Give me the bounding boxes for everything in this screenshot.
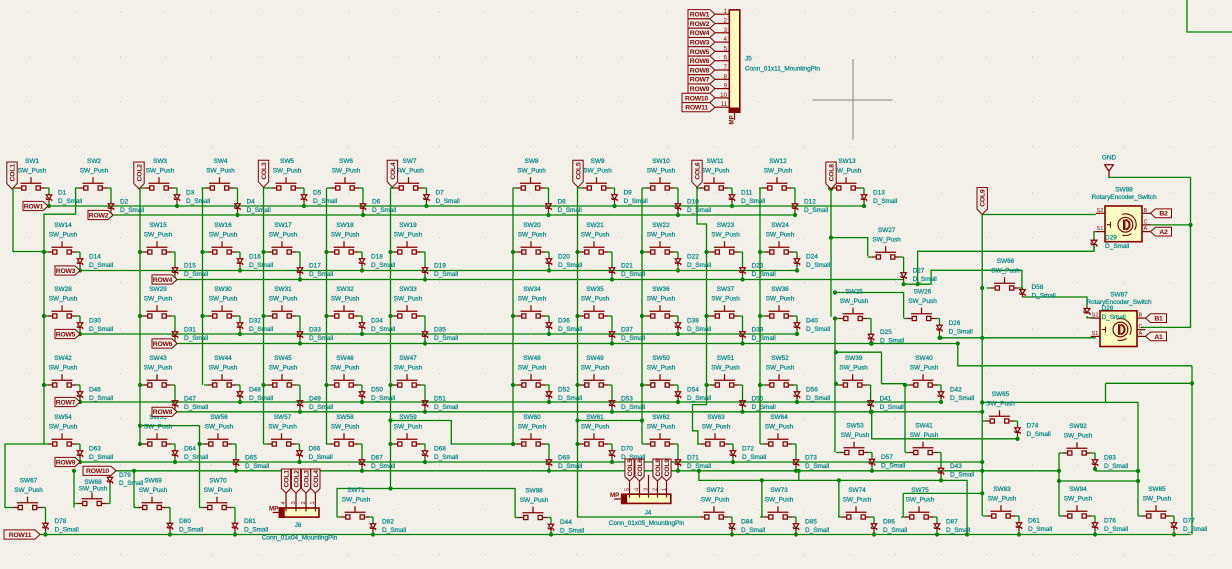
svg-text:D_Small: D_Small	[371, 262, 396, 269]
svg-text:D_Small: D_Small	[1102, 314, 1127, 321]
wire	[545, 384, 549, 386]
switch SW69	[138, 497, 166, 510]
wire	[1091, 515, 1095, 517]
svg-text:7: 7	[724, 64, 728, 71]
junction	[1057, 469, 1061, 473]
svg-text:A1: A1	[1154, 334, 1163, 341]
wire	[48, 188, 50, 193]
wire SW10 column	[641, 188, 643, 444]
wire	[235, 467, 237, 470]
wire	[174, 339, 176, 343]
svg-text:SW_Push: SW_Push	[906, 497, 935, 504]
junction	[360, 469, 364, 473]
wire	[79, 330, 81, 334]
diode D64	[172, 449, 177, 458]
svg-text:SW_Push: SW_Push	[394, 296, 423, 303]
switch SW38	[765, 305, 793, 318]
wire	[796, 266, 798, 270]
svg-text:D16: D16	[249, 253, 261, 260]
svg-text:SW69: SW69	[144, 477, 162, 484]
junction	[298, 277, 302, 281]
svg-text:D_Small: D_Small	[742, 454, 767, 461]
wire	[873, 517, 875, 522]
global label ROW4	[152, 275, 177, 284]
svg-text:D_Small: D_Small	[873, 198, 898, 205]
wire	[389, 384, 393, 386]
wire encoder C SW87	[1141, 326, 1191, 328]
wire	[903, 257, 905, 271]
svg-text:SW56: SW56	[210, 414, 228, 421]
wire lower mid bus	[699, 471, 967, 535]
switch SW35	[580, 305, 608, 318]
diode D50	[359, 390, 364, 399]
net COL9 wire	[981, 215, 983, 421]
wire	[389, 315, 393, 317]
junction	[388, 442, 392, 446]
junction	[676, 332, 680, 336]
net ROW2 wire	[113, 214, 795, 216]
svg-text:SW29: SW29	[149, 286, 167, 293]
svg-text:SW11: SW11	[706, 158, 723, 165]
svg-text:D_Small: D_Small	[434, 335, 459, 342]
wire	[326, 443, 330, 445]
wire	[548, 385, 550, 390]
wire	[739, 315, 743, 317]
junction	[138, 442, 142, 446]
junction	[1190, 381, 1194, 385]
diode D63	[77, 449, 82, 458]
diode D22	[675, 257, 680, 266]
svg-text:SW59: SW59	[399, 414, 417, 421]
wire	[75, 187, 79, 189]
junction	[833, 290, 837, 294]
svg-text:MP: MP	[729, 115, 736, 124]
svg-text:ROW2: ROW2	[690, 21, 710, 28]
wire	[1094, 467, 1096, 469]
svg-text:SW_Push: SW_Push	[518, 424, 547, 431]
svg-text:D_Small: D_Small	[560, 527, 585, 534]
junction	[795, 400, 799, 404]
diode D5	[301, 193, 306, 202]
svg-text:ROW6: ROW6	[690, 58, 710, 65]
svg-text:B: B	[1144, 208, 1148, 214]
wire	[362, 188, 364, 202]
wire	[171, 315, 175, 317]
svg-text:SW3: SW3	[153, 158, 167, 165]
svg-text:D_Small: D_Small	[371, 463, 396, 470]
net ROW3 wire	[80, 270, 797, 272]
junction	[132, 469, 136, 473]
svg-text:D_Small: D_Small	[741, 527, 766, 534]
diode D47	[172, 399, 177, 408]
switch SW3	[145, 177, 173, 190]
diode D61	[1016, 521, 1021, 530]
svg-text:Conn_01x11_MountingPin: Conn_01x11_MountingPin	[745, 66, 820, 73]
switch SW51	[711, 374, 739, 387]
net ROW1 wire	[48, 205, 864, 207]
svg-text:D_Small: D_Small	[1104, 463, 1129, 470]
svg-text:SW35: SW35	[586, 286, 604, 293]
svg-text:SW_Push: SW_Push	[765, 424, 794, 431]
power symbol GND	[1105, 165, 1114, 178]
wire	[236, 384, 240, 386]
wire	[1091, 452, 1095, 454]
junction	[511, 314, 515, 318]
svg-text:5: 5	[624, 488, 630, 491]
wire	[728, 516, 732, 518]
svg-text:SW37: SW37	[717, 286, 735, 293]
wire S1 SW88 run	[918, 246, 1094, 284]
junction	[109, 213, 113, 217]
junction	[794, 469, 798, 473]
wire	[760, 443, 764, 445]
svg-text:D15: D15	[184, 262, 196, 269]
switch SW27	[872, 246, 900, 259]
svg-text:S1: S1	[1097, 226, 1104, 232]
diode D15	[172, 266, 177, 275]
wire	[1094, 453, 1096, 458]
wire	[548, 252, 550, 257]
switch SW19	[393, 241, 421, 254]
svg-text:SW12: SW12	[769, 158, 787, 165]
junction	[872, 532, 876, 536]
svg-text:SW_Push: SW_Push	[701, 168, 730, 175]
junction	[575, 314, 579, 318]
junction	[200, 314, 204, 318]
diode D30	[77, 321, 82, 330]
svg-text:SW18: SW18	[336, 222, 354, 229]
svg-text:SW50: SW50	[652, 355, 670, 362]
svg-text:SW6: SW6	[339, 158, 353, 165]
junction	[42, 383, 46, 387]
svg-text:D_Small: D_Small	[179, 526, 204, 533]
wire	[677, 467, 679, 470]
svg-text:SW_Push: SW_Push	[268, 424, 297, 431]
svg-text:D_Small: D_Small	[946, 527, 971, 534]
wire	[173, 187, 177, 189]
global label COL1	[281, 469, 290, 493]
junction	[423, 277, 427, 281]
wire	[937, 452, 941, 454]
switch SW46	[330, 374, 358, 387]
svg-text:COL9: COL9	[664, 459, 671, 477]
svg-text:D32: D32	[249, 317, 261, 324]
svg-text:D_Small: D_Small	[434, 271, 459, 278]
switch SW2	[79, 177, 107, 190]
wire	[141, 187, 145, 189]
svg-text:SW88: SW88	[1115, 187, 1133, 194]
diode D26	[937, 324, 942, 333]
switch SW36	[646, 305, 674, 318]
wire	[79, 266, 81, 270]
svg-text:D53: D53	[621, 395, 633, 402]
diode D93	[1092, 458, 1097, 467]
wire	[361, 444, 363, 458]
svg-text:SW_Push: SW_Push	[711, 365, 740, 372]
svg-text:SW_Push: SW_Push	[144, 365, 173, 372]
svg-text:ROW10: ROW10	[685, 95, 708, 102]
switch SW23	[711, 241, 739, 254]
wire	[548, 467, 550, 470]
junction	[610, 277, 614, 281]
svg-text:S1: S1	[1092, 331, 1099, 337]
svg-text:D_Small: D_Small	[313, 198, 338, 205]
svg-text:D_Small: D_Small	[249, 262, 274, 269]
diode D87	[934, 522, 939, 531]
junction	[980, 410, 984, 414]
wire	[358, 251, 362, 253]
junction	[870, 469, 874, 473]
wire	[870, 319, 872, 333]
svg-text:SW61: SW61	[586, 414, 604, 421]
svg-text:D69: D69	[558, 454, 570, 461]
junction	[794, 532, 798, 536]
global label COL9	[977, 188, 987, 215]
svg-text:D38: D38	[687, 317, 699, 324]
svg-text:1: 1	[724, 8, 728, 15]
switch SW49	[580, 374, 608, 387]
junction	[47, 204, 51, 208]
svg-text:COL2: COL2	[293, 470, 300, 488]
svg-text:SW98: SW98	[525, 487, 543, 494]
wire	[614, 202, 616, 206]
wire to SW26	[835, 293, 904, 318]
wire	[327, 187, 331, 189]
net COL2 jog	[140, 426, 200, 508]
switch SW20	[517, 241, 545, 254]
svg-text:D4: D4	[247, 198, 256, 205]
svg-text:D_Small: D_Small	[687, 207, 712, 214]
wire	[732, 458, 734, 462]
svg-text:SW_Push: SW_Push	[79, 485, 108, 492]
svg-text:COL6: COL6	[637, 459, 644, 477]
svg-text:SW53: SW53	[846, 422, 864, 429]
svg-text:COL2: COL2	[136, 164, 143, 182]
svg-text:SW_Push: SW_Push	[702, 424, 731, 431]
svg-text:SW83: SW83	[993, 486, 1011, 493]
wire	[264, 384, 268, 386]
wire	[200, 443, 204, 445]
svg-text:SW_Push: SW_Push	[764, 168, 793, 175]
diode D32	[237, 321, 242, 330]
svg-text:D5: D5	[313, 189, 322, 196]
junction	[676, 268, 680, 272]
svg-text:SW38: SW38	[771, 286, 789, 293]
wire	[79, 385, 81, 390]
junction	[261, 383, 265, 387]
switch SW11	[700, 177, 728, 190]
wire	[707, 384, 711, 386]
wire	[982, 420, 986, 422]
svg-text:D_Small: D_Small	[249, 395, 274, 402]
wire	[139, 251, 143, 253]
switch SW14	[48, 241, 76, 254]
wire	[1094, 530, 1096, 534]
diode D80	[167, 522, 172, 531]
svg-text:SW8: SW8	[525, 158, 539, 165]
junction	[78, 268, 82, 272]
svg-text:SW75: SW75	[911, 487, 929, 494]
svg-text:Conn_01x04_MountingPin: Conn_01x04_MountingPin	[262, 535, 338, 542]
svg-text:D_Small: D_Small	[880, 404, 905, 411]
svg-text:D_Small: D_Small	[120, 207, 145, 214]
svg-text:SW13: SW13	[838, 158, 856, 165]
wire	[174, 444, 176, 449]
diode D17	[297, 266, 302, 275]
junction	[834, 350, 838, 354]
svg-text:D25: D25	[880, 329, 892, 336]
svg-text:SW_Push: SW_Push	[204, 487, 233, 494]
svg-text:COL4: COL4	[390, 162, 397, 180]
wire	[299, 339, 301, 343]
wire	[642, 443, 646, 445]
svg-text:D68: D68	[434, 445, 446, 452]
junction	[43, 532, 47, 536]
junction	[980, 336, 984, 340]
svg-text:SW70: SW70	[209, 477, 227, 484]
svg-text:SW48: SW48	[523, 355, 541, 362]
wire	[742, 275, 744, 279]
switch SW85	[1142, 505, 1170, 518]
wire	[1059, 452, 1063, 454]
diode D68	[422, 449, 427, 458]
svg-text:SW_Push: SW_Push	[49, 232, 78, 239]
svg-text:A: A	[1144, 226, 1148, 232]
wire SW8 column	[512, 188, 514, 444]
svg-text:D24: D24	[806, 253, 818, 260]
diode D43	[938, 467, 943, 476]
svg-text:ROW6: ROW6	[153, 341, 173, 348]
svg-text:SW14: SW14	[54, 222, 72, 229]
junction	[361, 213, 365, 217]
svg-text:ROW10: ROW10	[86, 468, 109, 475]
svg-text:C: C	[1139, 324, 1143, 330]
diode D76	[1092, 521, 1097, 530]
wire	[42, 507, 46, 509]
junction	[511, 383, 515, 387]
svg-text:D66: D66	[309, 445, 321, 452]
junction	[138, 383, 142, 387]
junction	[546, 213, 550, 217]
svg-text:SW28: SW28	[54, 286, 72, 293]
svg-text:D_Small: D_Small	[558, 463, 583, 470]
switch SW28	[48, 305, 76, 318]
svg-text:SW67: SW67	[20, 477, 38, 484]
diode D16	[237, 257, 242, 266]
wire jog to SW60	[391, 421, 514, 445]
wire	[796, 316, 798, 321]
switch SW45	[268, 374, 296, 387]
svg-text:COL4: COL4	[313, 470, 320, 488]
svg-text:D7: D7	[436, 189, 445, 196]
switch SW31	[268, 305, 296, 318]
wire	[836, 452, 840, 454]
svg-text:D44: D44	[560, 519, 572, 526]
svg-text:D17: D17	[309, 262, 321, 269]
diode D44	[548, 523, 553, 532]
switch SW62	[646, 433, 674, 446]
svg-text:ROW8: ROW8	[690, 67, 710, 74]
diode D66	[297, 449, 302, 458]
svg-text:D_Small: D_Small	[58, 198, 83, 205]
wire	[234, 187, 238, 189]
junction	[902, 282, 906, 286]
wire	[174, 458, 176, 462]
global label A2	[1151, 227, 1172, 236]
wire	[677, 188, 679, 202]
wire	[904, 318, 908, 320]
svg-text:D_Small: D_Small	[1105, 243, 1130, 250]
wire	[608, 443, 612, 445]
switch SW21	[580, 241, 608, 254]
wire	[901, 516, 905, 518]
junction	[72, 469, 76, 473]
switch SW37	[711, 305, 739, 318]
wire	[48, 202, 50, 206]
svg-text:6: 6	[724, 55, 728, 62]
wire	[296, 251, 300, 253]
wire	[940, 399, 942, 402]
diode D73	[793, 458, 798, 467]
junction	[1093, 532, 1097, 536]
wire	[794, 188, 796, 202]
switch SW72	[700, 506, 728, 519]
switch SW10	[646, 177, 674, 190]
diode D56	[794, 390, 799, 399]
junction	[547, 400, 551, 404]
wire	[303, 202, 305, 206]
wire	[761, 384, 765, 386]
svg-text:SW20: SW20	[523, 222, 541, 229]
svg-text:SW30: SW30	[214, 286, 232, 293]
wire	[372, 517, 374, 522]
svg-text:SW_Push: SW_Push	[205, 424, 234, 431]
wire	[204, 384, 208, 386]
wire	[707, 315, 711, 317]
junction	[937, 336, 941, 340]
wire	[871, 467, 873, 471]
svg-text:ROW8: ROW8	[153, 409, 173, 416]
diode D38	[675, 321, 680, 330]
svg-text:C: C	[1144, 219, 1148, 225]
wire	[299, 385, 301, 399]
switch SW8	[517, 177, 545, 190]
svg-text:SW_Push: SW_Push	[139, 487, 168, 494]
junction	[235, 213, 239, 217]
svg-text:D84: D84	[741, 518, 753, 525]
junction	[173, 341, 177, 345]
global label COL9	[662, 459, 671, 481]
wire	[835, 318, 839, 320]
wire	[674, 384, 678, 386]
svg-text:SW54: SW54	[54, 414, 72, 421]
svg-text:SW46: SW46	[336, 355, 354, 362]
wire	[79, 458, 81, 462]
diode D7	[424, 193, 429, 202]
wire	[742, 252, 744, 266]
wire	[239, 266, 241, 270]
svg-text:D81: D81	[244, 518, 256, 525]
rotary encoder SW87	[1086, 291, 1152, 346]
wire	[795, 531, 797, 534]
wire D25 to row6	[871, 341, 873, 344]
svg-text:D74: D74	[1027, 422, 1039, 429]
wire row6 riser	[958, 344, 1192, 366]
wire	[611, 275, 613, 279]
global label COL1	[7, 162, 17, 189]
svg-text:D_Small: D_Small	[89, 395, 114, 402]
svg-text:SW_Push: SW_Push	[331, 296, 360, 303]
